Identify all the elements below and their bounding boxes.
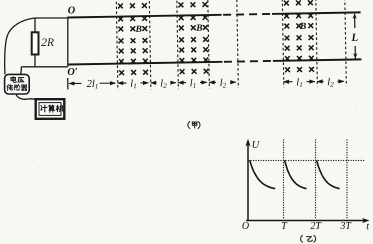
- decay curve 3: [317, 160, 340, 188]
- dotted vertical at 3T: [346, 140, 348, 220]
- dimension arrow l2 from x=208 to x=237: [209, 81, 236, 83]
- label 传 (sensor line2): [7, 85, 13, 91]
- dashed boundary gap l2 right tick: [237, 0, 239, 88]
- rail bottom solid left: [68, 62, 222, 65]
- caption (乙) figure B: [301, 235, 303, 242]
- dotted vertical at T: [283, 140, 285, 220]
- wire O-O' vertical at rail start: [67, 18, 69, 67]
- decay curve 1: [250, 160, 276, 188]
- magnetic field region strip2: x marks (B into page): [178, 2, 208, 74]
- dashed boundary strip3 left: [282, 0, 284, 87]
- magnetic field region strip1: x marks (B into page): [118, 3, 148, 75]
- computer box outer: [36, 99, 65, 119]
- resistor 2R body: [32, 32, 39, 54]
- wire sensor to computer: [16, 94, 36, 100]
- svg-text:2R: 2R: [41, 35, 54, 49]
- dotted level line: [249, 160, 366, 162]
- dimension arrow l1 from x=177 to x=208: [178, 81, 207, 83]
- label 感 (sensor line2): [14, 85, 20, 91]
- dashed boundary strip1 left: [116, 2, 118, 90]
- svg-text:3T: 3T: [339, 221, 352, 232]
- label 器 (sensor line2): [21, 85, 27, 91]
- svg-text:t: t: [366, 221, 369, 232]
- svg-text:B: B: [195, 24, 203, 34]
- graph y-axis: [247, 143, 249, 221]
- wire sensor right lead: [20, 67, 23, 75]
- rail top dashed middle: [223, 13, 270, 16]
- magnetic field region strip3: x marks (B into page): [284, 0, 314, 72]
- label 压 (sensor line1): [18, 77, 24, 82]
- svg-text:O: O: [242, 221, 249, 232]
- dashed boundary strip1 right: [149, 1, 151, 89]
- dashed boundary strip2 left: [177, 1, 179, 89]
- svg-text:O: O: [68, 6, 76, 17]
- dimension arrow 2l1 from x=67.8 to x=116.6: [69, 82, 115, 84]
- voltage sensor box: [5, 74, 30, 94]
- tick below O': [67, 78, 69, 89]
- wire bottom from sensor lead to O': [21, 66, 68, 68]
- caption (甲) figure A: [188, 122, 190, 129]
- wire top from resistor to O: [35, 17, 68, 19]
- label 算 (computer): [49, 105, 55, 112]
- dashed boundary strip2 right: [208, 0, 210, 88]
- rail bottom solid right: [273, 59, 361, 61]
- svg-text:B: B: [299, 22, 307, 32]
- svg-text:B: B: [134, 25, 142, 35]
- dimension arrow l2 from x=149.6 to x=177: [151, 82, 176, 84]
- rail top solid left: [67, 15, 221, 18]
- svg-text:L: L: [350, 32, 358, 44]
- decay curve 2: [285, 160, 307, 188]
- dimension arrow l1 from x=116.6 to x=149.6: [118, 82, 149, 84]
- dashed boundary last l2 tick: [345, 0, 347, 86]
- label 计 (computer): [41, 105, 47, 112]
- wire arc from top wire to voltage sensor: [5, 18, 35, 74]
- label 机 (computer): [56, 105, 63, 112]
- rail bottom dashed middle: [224, 60, 271, 63]
- svg-text:O′: O′: [67, 67, 77, 78]
- label 电 (sensor line1): [11, 77, 16, 83]
- dimension arrow l1 from x=282.4 to x=316: [284, 81, 315, 83]
- computer box inner: [39, 103, 61, 116]
- graph x-axis: [246, 220, 366, 222]
- dimension arrow l2 from x=316 to x=345: [317, 80, 344, 82]
- length L double arrow: [354, 14, 357, 59]
- dotted vertical at 2T: [315, 140, 317, 220]
- rail top solid right: [272, 12, 360, 14]
- dashed boundary strip3 right: [316, 0, 318, 87]
- svg-text:2T: 2T: [310, 221, 322, 232]
- resistor 2R leads: [34, 18, 36, 67]
